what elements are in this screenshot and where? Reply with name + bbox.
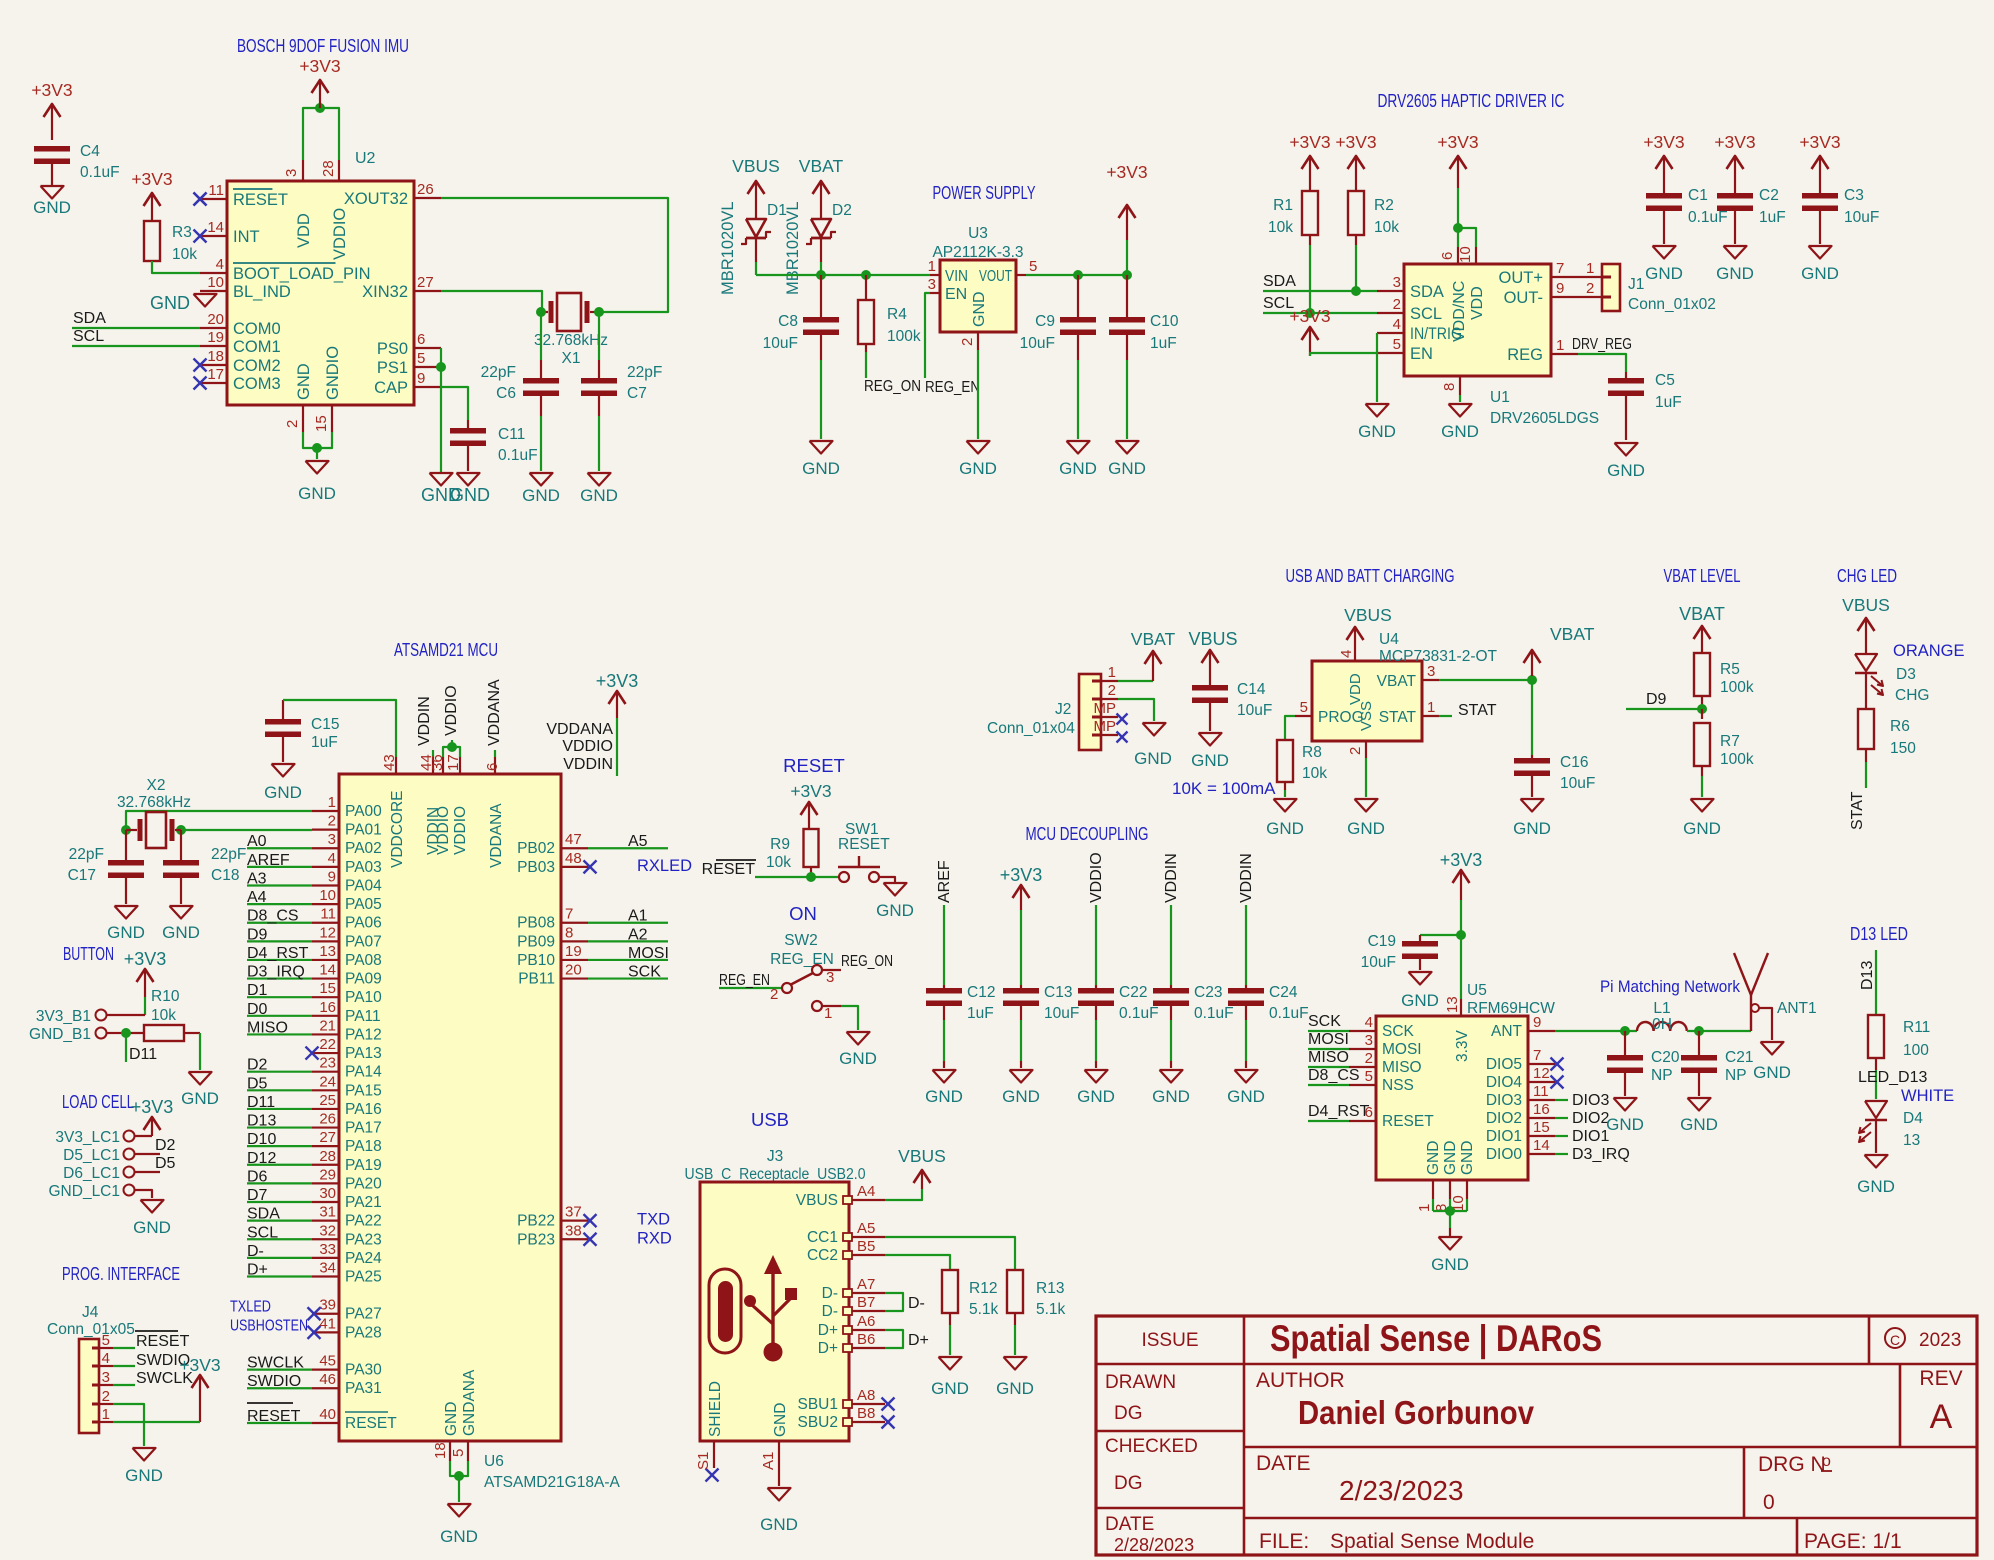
svg-text:SCL: SCL [73,328,104,345]
svg-text:GND: GND [522,486,560,505]
svg-text:8: 8 [1441,383,1458,391]
svg-text:GND: GND [440,1527,478,1546]
svg-text:13: 13 [319,943,336,960]
svg-text:4: 4 [1338,650,1355,658]
svg-text:REG_EN: REG_EN [925,379,980,396]
svg-text:RESET: RESET [233,191,288,209]
svg-text:32.768kHz: 32.768kHz [534,332,608,349]
svg-text:+3V3: +3V3 [1643,132,1684,152]
svg-text:28: 28 [319,1148,336,1165]
svg-text:X2: X2 [147,777,166,794]
svg-text:GND: GND [443,1402,460,1436]
svg-text:D8_CS: D8_CS [247,908,299,925]
svg-text:+3V3: +3V3 [31,80,72,100]
svg-text:1uF: 1uF [1655,394,1682,411]
svg-text:ORANGE: ORANGE [1893,642,1965,660]
svg-text:PB23: PB23 [517,1231,555,1248]
svg-text:GND: GND [1077,1087,1115,1106]
svg-text:PB11: PB11 [518,971,555,988]
svg-text:RESET: RESET [838,836,890,853]
svg-text:USB AND BATT CHARGING: USB AND BATT CHARGING [1286,565,1455,586]
svg-text:1: 1 [102,1406,110,1423]
svg-text:GND: GND [931,1379,969,1398]
svg-text:BOSCH 9DOF FUSION IMU: BOSCH 9DOF FUSION IMU [237,35,409,56]
svg-text:19: 19 [565,943,582,960]
svg-text:22pF: 22pF [211,846,246,863]
svg-text:+3V3: +3V3 [790,781,831,801]
svg-text:RESET: RESET [783,755,845,776]
svg-text:C11: C11 [498,426,525,443]
svg-text:R9: R9 [770,836,790,853]
svg-text:10k: 10k [1302,765,1327,782]
svg-text:D+: D+ [247,1262,268,1279]
svg-text:ATSAMD21G18A-A: ATSAMD21G18A-A [484,1474,620,1491]
svg-text:GND: GND [1227,1087,1265,1106]
svg-text:GND: GND [162,923,200,942]
svg-text:DIO0: DIO0 [1486,1146,1523,1163]
svg-text:MBR1020VL: MBR1020VL [719,201,737,295]
svg-text:CC2: CC2 [807,1247,838,1264]
svg-text:100k: 100k [1720,679,1754,696]
svg-text:A2: A2 [628,926,648,943]
svg-text:18: 18 [207,348,224,365]
svg-text:GND: GND [1191,751,1229,770]
svg-text:LED_D13: LED_D13 [1858,1069,1927,1086]
svg-text:+3V3: +3V3 [1335,132,1376,152]
svg-text:22pF: 22pF [627,364,662,381]
svg-text:S1: S1 [695,1452,712,1470]
svg-text:PB22: PB22 [517,1213,555,1230]
svg-text:0.1uF: 0.1uF [1119,1005,1159,1022]
svg-text:15: 15 [1533,1119,1550,1136]
svg-text:C1: C1 [1688,187,1708,204]
svg-text:VBAT: VBAT [1679,604,1725,624]
svg-text:MOSI: MOSI [1308,1031,1349,1048]
svg-text:RESET: RESET [345,1415,397,1432]
svg-text:D5: D5 [155,1155,176,1172]
svg-text:D6_LC1: D6_LC1 [63,1165,120,1182]
svg-text:10uF: 10uF [1044,1005,1079,1022]
svg-text:GND: GND [1441,422,1479,441]
svg-text:D0: D0 [247,1001,268,1018]
svg-text:D-: D- [908,1295,925,1312]
svg-text:MP: MP [1094,718,1117,735]
svg-text:5.1k: 5.1k [1036,1301,1066,1318]
svg-text:RESET: RESET [136,1333,190,1350]
svg-text:GND: GND [802,459,840,478]
svg-text:10uF: 10uF [763,335,798,352]
svg-text:9: 9 [328,868,336,885]
svg-text:+3V3: +3V3 [1289,132,1330,152]
svg-text:R5: R5 [1720,661,1740,678]
svg-text:PA01: PA01 [345,822,382,839]
svg-text:C3: C3 [1844,187,1864,204]
svg-text:PA07: PA07 [345,933,382,950]
svg-text:ISSUE: ISSUE [1141,1330,1198,1351]
svg-text:U2: U2 [355,150,376,167]
svg-text:GND: GND [1152,1087,1190,1106]
svg-text:39: 39 [319,1297,336,1314]
svg-text:14: 14 [319,962,336,979]
svg-text:C18: C18 [211,867,239,884]
svg-text:PA18: PA18 [345,1138,382,1155]
svg-text:GND: GND [125,1466,163,1485]
svg-text:X1: X1 [562,350,581,367]
svg-text:2: 2 [102,1388,110,1405]
svg-text:5: 5 [1393,336,1401,353]
svg-text:REV: REV [1919,1367,1962,1390]
svg-text:DIO1: DIO1 [1486,1128,1522,1145]
svg-text:BOOT_LOAD_PIN: BOOT_LOAD_PIN [233,265,371,283]
svg-text:PA02: PA02 [345,840,382,857]
svg-text:D10: D10 [247,1131,276,1148]
svg-text:D-: D- [822,1285,838,1302]
svg-text:GND: GND [1607,461,1645,480]
svg-text:9: 9 [417,370,425,387]
svg-text:Conn_01x02: Conn_01x02 [1628,296,1716,313]
svg-text:D11: D11 [129,1046,157,1063]
svg-text:U3: U3 [968,225,988,242]
svg-text:R10: R10 [151,988,180,1005]
svg-text:MCP73831-2-OT: MCP73831-2-OT [1379,648,1498,665]
svg-text:C19: C19 [1368,933,1396,950]
svg-text:SDA: SDA [1410,283,1444,301]
svg-text:12: 12 [319,924,336,941]
svg-text:J1: J1 [1628,276,1644,293]
svg-text:BUTTON: BUTTON [63,943,114,964]
svg-text:9: 9 [1556,280,1564,297]
svg-text:10uF: 10uF [1020,335,1055,352]
svg-text:R7: R7 [1720,733,1740,750]
svg-text:2023: 2023 [1919,1330,1961,1351]
svg-text:5.1k: 5.1k [969,1301,999,1318]
svg-text:PROG. INTERFACE: PROG. INTERFACE [62,1263,180,1284]
svg-text:C9: C9 [1035,313,1055,330]
svg-text:5: 5 [450,1449,467,1457]
svg-text:R2: R2 [1374,197,1394,214]
svg-text:VDDIO: VDDIO [331,208,349,260]
svg-text:24: 24 [319,1073,336,1090]
svg-text:GNDANA: GNDANA [461,1369,478,1436]
svg-text:Spatial Sense Module: Spatial Sense Module [1330,1530,1534,1553]
svg-text:D+: D+ [908,1332,929,1349]
svg-text:DRV_REG: DRV_REG [1572,336,1632,353]
svg-text:27: 27 [319,1129,336,1146]
svg-text:SBU1: SBU1 [798,1396,839,1413]
svg-text:GND_LC1: GND_LC1 [49,1183,121,1200]
svg-text:D1: D1 [247,982,268,999]
svg-text:+3V3: +3V3 [299,56,340,76]
svg-text:RESET: RESET [1382,1113,1434,1130]
svg-text:U5: U5 [1467,982,1487,999]
svg-text:0H: 0H [1652,1016,1672,1033]
svg-text:SCK: SCK [1308,1013,1341,1030]
svg-text:GND: GND [1680,1115,1718,1134]
svg-text:AUTHOR: AUTHOR [1256,1369,1345,1392]
svg-text:D4_RST: D4_RST [247,945,309,962]
svg-text:14: 14 [207,219,224,236]
svg-text:2: 2 [1108,682,1116,699]
svg-text:DIO3: DIO3 [1486,1092,1522,1109]
svg-text:D9: D9 [1646,691,1667,708]
svg-text:R13: R13 [1036,1280,1064,1297]
svg-text:VIN: VIN [945,268,968,285]
svg-text:0.1uF: 0.1uF [1194,1005,1234,1022]
svg-text:4: 4 [1393,316,1401,333]
svg-text:PB02: PB02 [517,840,555,857]
svg-text:PB08: PB08 [517,915,555,932]
svg-text:PA28: PA28 [345,1324,382,1341]
svg-text:PA09: PA09 [345,971,382,988]
svg-text:RFM69HCW: RFM69HCW [1467,1000,1555,1017]
svg-text:C23: C23 [1194,984,1222,1001]
svg-text:MISO: MISO [247,1019,288,1036]
svg-text:ANT1: ANT1 [1777,1000,1817,1017]
svg-text:A6: A6 [857,1313,875,1330]
svg-text:XIN32: XIN32 [362,283,408,301]
svg-text:32: 32 [319,1222,336,1239]
svg-text:LOAD CELL: LOAD CELL [62,1091,134,1112]
svg-text:R8: R8 [1302,744,1322,761]
svg-text:R3: R3 [172,224,192,241]
svg-text:10k: 10k [1268,219,1293,236]
svg-text:C15: C15 [311,716,339,733]
svg-text:3: 3 [1393,274,1401,291]
svg-text:REG_EN: REG_EN [719,972,770,989]
svg-text:DIO2: DIO2 [1486,1110,1522,1127]
svg-text:PA06: PA06 [345,915,382,932]
svg-text:D2: D2 [247,1057,268,1074]
svg-text:VDDIO: VDDIO [443,685,460,736]
svg-text:DATE: DATE [1256,1452,1310,1475]
svg-text:U1: U1 [1490,389,1510,406]
svg-text:A5: A5 [628,833,648,850]
svg-text:MBR1020VL: MBR1020VL [784,201,802,295]
svg-text:PS1: PS1 [377,359,408,377]
svg-text:SCL: SCL [1410,305,1442,323]
svg-text:PA25: PA25 [345,1269,382,1286]
svg-text:37: 37 [565,1204,582,1221]
svg-text:6: 6 [484,763,501,771]
svg-text:PROG: PROG [1318,709,1364,726]
svg-text:2: 2 [1365,1050,1373,1067]
svg-text:GND: GND [772,1403,789,1437]
svg-text:VBUS: VBUS [1842,595,1890,615]
svg-text:VDDIO: VDDIO [1088,852,1105,903]
svg-text:VDDIN: VDDIN [416,696,433,746]
svg-text:D13: D13 [247,1113,276,1130]
svg-text:Pi Matching Network: Pi Matching Network [1600,977,1740,996]
svg-text:38: 38 [565,1222,582,1239]
svg-text:32.768kHz: 32.768kHz [117,794,191,811]
svg-text:2/28/2023: 2/28/2023 [1114,1535,1194,1555]
svg-text:10uF: 10uF [1237,702,1272,719]
svg-text:4: 4 [102,1350,110,1367]
svg-text:AREF: AREF [936,860,953,903]
svg-text:GND: GND [181,1089,219,1108]
svg-text:PA23: PA23 [345,1231,382,1248]
svg-text:D3_IRQ: D3_IRQ [247,964,305,981]
svg-text:C22: C22 [1119,984,1147,1001]
svg-text:3: 3 [826,969,834,986]
svg-text:7: 7 [1533,1047,1541,1064]
svg-text:VDD/NC: VDD/NC [1451,281,1468,342]
svg-text:GND: GND [1442,1141,1459,1175]
svg-text:PA21: PA21 [345,1194,382,1211]
svg-text:C7: C7 [627,385,647,402]
svg-text:31: 31 [319,1204,336,1221]
svg-text:Conn_01x04: Conn_01x04 [987,720,1075,737]
svg-text:+3V3: +3V3 [1289,306,1330,326]
svg-text:3V3_LC1: 3V3_LC1 [55,1129,120,1146]
svg-text:5: 5 [1365,1068,1373,1085]
svg-text:SW2: SW2 [784,932,818,949]
svg-text:+3V3: +3V3 [131,169,172,189]
svg-text:18: 18 [432,1442,449,1459]
svg-text:U6: U6 [484,1453,504,1470]
svg-text:10uF: 10uF [1560,775,1595,792]
svg-text:A7: A7 [857,1276,875,1293]
svg-text:22pF: 22pF [481,364,516,381]
svg-text:BL_IND: BL_IND [233,283,291,301]
svg-text:Daniel Gorbunov: Daniel Gorbunov [1298,1394,1535,1431]
svg-text:MOSI: MOSI [628,945,669,962]
svg-text:D4_RST: D4_RST [1308,1103,1370,1120]
svg-text:26: 26 [417,181,434,198]
svg-text:D2: D2 [155,1137,176,1154]
svg-text:29: 29 [319,1166,336,1183]
svg-text:MP: MP [1094,700,1117,717]
svg-text:GND: GND [1753,1063,1791,1082]
svg-text:C: C [1890,1332,1900,1348]
svg-text:CHECKED: CHECKED [1105,1436,1198,1457]
svg-text:1: 1 [328,794,336,811]
svg-text:A: A [1930,1398,1953,1436]
svg-text:RXLED: RXLED [637,857,692,875]
svg-text:REG_ON: REG_ON [864,378,921,395]
svg-text:0.1uF: 0.1uF [80,164,120,181]
svg-text:D12: D12 [247,1150,276,1167]
svg-text:17: 17 [207,366,224,383]
svg-text:GND: GND [839,1049,877,1068]
svg-text:0.1uF: 0.1uF [498,447,538,464]
svg-text:5: 5 [417,350,425,367]
svg-text:C6: C6 [496,385,516,402]
svg-text:NP: NP [1651,1067,1673,1084]
svg-text:USB: USB [751,1109,789,1130]
svg-text:GND: GND [971,291,988,327]
svg-text:MOSI: MOSI [1382,1041,1422,1058]
svg-text:GND: GND [1059,459,1097,478]
svg-text:12: 12 [1533,1065,1550,1082]
svg-text:SDA: SDA [247,1206,280,1223]
svg-text:GND: GND [133,1218,171,1237]
svg-text:PA19: PA19 [345,1157,382,1174]
svg-text:28: 28 [320,160,337,177]
svg-text:PA13: PA13 [345,1045,382,1062]
svg-text:TXD: TXD [637,1211,670,1229]
svg-text:1: 1 [1416,1204,1433,1212]
svg-text:23: 23 [319,1055,336,1072]
svg-text:100: 100 [1903,1042,1929,1059]
svg-text:L1: L1 [1653,1000,1670,1017]
svg-text:4: 4 [1365,1014,1373,1031]
svg-text:33: 33 [319,1241,336,1258]
svg-text:PS0: PS0 [377,340,408,358]
svg-text:SDA: SDA [73,310,106,327]
svg-text:D5: D5 [247,1075,268,1092]
svg-text:10k: 10k [766,854,791,871]
svg-text:+3V3: +3V3 [1440,850,1483,870]
svg-text:SDA: SDA [1263,273,1296,290]
svg-text:+3V3: +3V3 [596,671,639,691]
svg-text:VDD: VDD [295,213,313,248]
svg-text:GND: GND [1513,819,1551,838]
svg-text:GND_B1: GND_B1 [29,1026,91,1043]
svg-text:C13: C13 [1044,984,1072,1001]
svg-text:USB_C_Receptacle_USB2.0: USB_C_Receptacle_USB2.0 [685,1166,866,1183]
svg-text:COM1: COM1 [233,338,281,356]
svg-text:2: 2 [284,420,301,428]
svg-text:1uF: 1uF [967,1005,994,1022]
svg-text:47: 47 [565,831,582,848]
svg-text:5: 5 [1029,258,1037,275]
svg-text:1: 1 [928,258,936,275]
svg-text:GND: GND [1347,819,1385,838]
svg-text:MCU DECOUPLING: MCU DECOUPLING [1026,823,1149,844]
svg-text:3.3V: 3.3V [1454,1029,1471,1062]
svg-text:11: 11 [320,906,336,923]
svg-text:C21: C21 [1725,1049,1753,1066]
svg-text:A1: A1 [760,1452,777,1470]
svg-text:PA31: PA31 [345,1380,382,1397]
svg-text:D9: D9 [247,926,268,943]
svg-text:REG_EN: REG_EN [770,951,834,968]
svg-text:XOUT32: XOUT32 [344,190,408,208]
svg-text:D3: D3 [1896,666,1916,683]
svg-text:13: 13 [1903,1132,1920,1149]
svg-text:GND: GND [1683,819,1721,838]
svg-text:PA10: PA10 [345,989,382,1006]
svg-text:30: 30 [319,1185,336,1202]
svg-text:C5: C5 [1655,372,1675,389]
svg-text:C20: C20 [1651,1049,1680,1066]
svg-text:RXD: RXD [637,1229,672,1247]
svg-text:1uF: 1uF [1759,209,1786,226]
svg-text:5: 5 [102,1332,110,1349]
svg-text:PA20: PA20 [345,1175,382,1192]
svg-text:3: 3 [1427,663,1435,680]
svg-text:STAT: STAT [1458,702,1497,719]
svg-text:A4: A4 [247,889,267,906]
svg-text:PB03: PB03 [517,859,555,876]
svg-text:SHIELD: SHIELD [707,1381,724,1437]
svg-text:10uF: 10uF [1361,954,1396,971]
svg-text:DRG N: DRG N [1758,1453,1826,1476]
svg-text:MISO: MISO [1382,1059,1422,1076]
svg-text:GND: GND [1716,264,1754,283]
svg-text:DIO5: DIO5 [1486,1056,1522,1073]
svg-text:VBUS: VBUS [1344,605,1392,625]
svg-text:VDDANA: VDDANA [546,721,613,738]
svg-text:11: 11 [208,182,224,199]
svg-text:R12: R12 [969,1280,997,1297]
svg-text:CC1: CC1 [807,1229,838,1246]
svg-text:+3V3: +3V3 [179,1355,220,1375]
svg-text:B8: B8 [857,1405,875,1422]
svg-text:VDDANA: VDDANA [486,679,503,746]
svg-text:PA24: PA24 [345,1250,382,1267]
